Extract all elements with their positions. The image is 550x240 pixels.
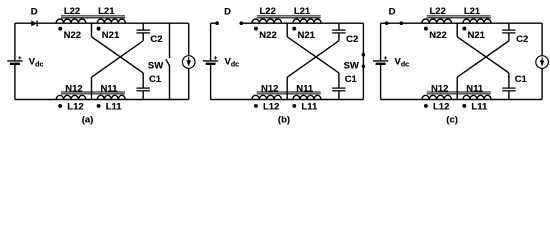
- svg-text:L22: L22: [64, 6, 80, 17]
- svg-text:L22: L22: [260, 6, 276, 17]
- capacitor C2: [502, 29, 515, 31]
- svg-text:Vdc: Vdc: [395, 57, 410, 69]
- svg-text:Vdc: Vdc: [225, 57, 240, 69]
- inductor L21 winding: [463, 19, 491, 23]
- svg-text:L11: L11: [301, 101, 318, 112]
- polarity dot L12: [424, 104, 428, 108]
- wire C2 top lead: [142, 23, 144, 30]
- inductor N12/L12 winding: [422, 95, 452, 99]
- switch SW closed wire: [362, 23, 364, 99]
- wire top rail: [381, 22, 542, 24]
- wire bottom rail: [211, 99, 364, 101]
- svg-text:N21: N21: [102, 30, 120, 41]
- node diode terminal right: [240, 21, 244, 25]
- wire diagonal C2 to bottom-junction: [92, 41, 144, 77]
- svg-text:L21: L21: [98, 6, 115, 17]
- wire top rail left segment: [211, 22, 218, 24]
- svg-text:N12: N12: [431, 83, 448, 94]
- svg-text:D: D: [224, 7, 231, 18]
- svg-text:SW: SW: [344, 60, 359, 71]
- svg-text:(a): (a): [82, 114, 94, 125]
- polarity dot N21: [292, 27, 296, 31]
- current source circle: [536, 56, 549, 69]
- wire right edge lower: [188, 68, 190, 99]
- wire diagonal C2 to bottom-junction: [287, 41, 339, 77]
- wire top rail right segment: [241, 22, 363, 24]
- svg-text:L22: L22: [430, 6, 446, 17]
- wire C1 top lead: [508, 73, 510, 88]
- polarity dot N22: [424, 27, 428, 31]
- wire right edge upper: [188, 23, 190, 56]
- wire left edge lower: [380, 64, 382, 100]
- core bars bottom: [61, 91, 125, 93]
- wire stub to bottom winding junction: [286, 77, 288, 99]
- wire C2 bottom lead: [508, 33, 510, 41]
- svg-text:N11: N11: [466, 83, 484, 94]
- svg-text:C2: C2: [516, 34, 528, 45]
- wire left edge upper: [380, 23, 382, 61]
- wire C1 bottom lead: [338, 91, 340, 100]
- svg-text:D: D: [389, 7, 396, 18]
- polarity dot N21: [97, 27, 101, 31]
- wire stub to bottom winding junction: [456, 77, 458, 99]
- wire left edge lower: [210, 64, 212, 100]
- wire stub to bottom winding junction: [91, 77, 93, 99]
- svg-text:L12: L12: [67, 101, 83, 112]
- wire left edge lower: [14, 64, 16, 100]
- wire left edge upper: [14, 23, 16, 61]
- wire diagonal C2 to bottom-junction: [457, 41, 509, 77]
- polarity dot N22: [254, 27, 258, 31]
- inductor N11/L11 winding: [97, 95, 125, 99]
- wire bottom rail: [381, 99, 542, 101]
- svg-text:N11: N11: [101, 83, 119, 94]
- current source arrow: [188, 57, 190, 62]
- svg-text:N12: N12: [261, 83, 278, 94]
- capacitor C1: [137, 87, 150, 89]
- svg-text:N22: N22: [64, 30, 81, 41]
- battery plus sign: [18, 57, 21, 59]
- wire diagonal top-junction to C1: [92, 37, 144, 73]
- wire top rail: [15, 22, 189, 24]
- svg-text:Vdc: Vdc: [29, 57, 44, 69]
- wire stub from top winding junction: [91, 23, 93, 37]
- svg-text:SW: SW: [148, 60, 163, 71]
- node diode terminal right: [400, 21, 404, 25]
- svg-text:L11: L11: [106, 101, 123, 112]
- wire stub from top winding junction: [286, 23, 288, 37]
- inductor N12/L12 winding: [252, 95, 282, 99]
- wire left edge upper: [210, 23, 212, 61]
- svg-text:C1: C1: [345, 74, 358, 85]
- polarity dot L11: [292, 104, 296, 108]
- svg-text:D: D: [31, 7, 38, 18]
- battery plus sign: [384, 57, 387, 59]
- battery Vdc plates: [373, 60, 388, 62]
- svg-text:N22: N22: [259, 30, 276, 41]
- diode D: [31, 20, 37, 26]
- core bars top: [257, 15, 321, 17]
- inductor L22 winding: [252, 19, 282, 23]
- capacitor C2: [137, 29, 150, 31]
- core bars bottom: [257, 91, 321, 93]
- inductor N12/L12 winding: [56, 95, 86, 99]
- svg-text:(b): (b): [278, 114, 290, 125]
- wire C1 bottom lead: [142, 91, 144, 100]
- battery Vdc plates: [7, 60, 22, 62]
- svg-text:C1: C1: [149, 74, 162, 85]
- wire bottom rail: [15, 99, 189, 101]
- wire C2 bottom lead: [338, 33, 340, 41]
- wire stub from top winding junction: [456, 23, 458, 37]
- svg-text:C2: C2: [346, 34, 358, 45]
- polarity dot L12: [254, 104, 258, 108]
- wire C2 top lead: [508, 23, 510, 30]
- wire diagonal top-junction to C1: [287, 37, 339, 73]
- inductor L21 winding: [293, 19, 321, 23]
- svg-text:N22: N22: [429, 30, 446, 41]
- polarity dot N22: [58, 27, 62, 31]
- wire C2 top lead: [338, 23, 340, 30]
- svg-text:L21: L21: [294, 6, 311, 17]
- svg-text:C1: C1: [515, 74, 528, 85]
- polarity dot N21: [462, 27, 466, 31]
- wire diagonal top-junction to C1: [457, 37, 509, 73]
- inductor N11/L11 winding: [463, 95, 491, 99]
- svg-text:L21: L21: [464, 6, 481, 17]
- wire right edge lower: [541, 68, 543, 99]
- svg-text:N11: N11: [296, 83, 314, 94]
- core bars bottom: [427, 91, 491, 93]
- battery Vdc plates: [203, 60, 218, 62]
- switch SW terminal dot bottom: [362, 65, 366, 69]
- svg-text:C2: C2: [150, 34, 162, 45]
- inductor L22 winding: [56, 19, 86, 23]
- battery plus sign: [214, 57, 217, 59]
- svg-text:N21: N21: [298, 30, 316, 41]
- svg-text:L12: L12: [263, 101, 279, 112]
- switch SW open blade: [169, 23, 171, 58]
- wire right edge upper: [541, 23, 543, 56]
- switch SW terminal dot top: [362, 53, 366, 57]
- capacitor C1: [502, 87, 515, 89]
- wire C1 top lead: [338, 73, 340, 88]
- polarity dot L12: [58, 104, 62, 108]
- current source arrow: [541, 57, 543, 62]
- svg-text:N21: N21: [468, 30, 486, 41]
- svg-text:L11: L11: [471, 101, 488, 112]
- core bars top: [61, 15, 125, 17]
- polarity dot L11: [462, 104, 466, 108]
- inductor L22 winding: [422, 19, 452, 23]
- polarity dot L11: [97, 104, 101, 108]
- wire C2 bottom lead: [142, 33, 144, 41]
- inductor N11/L11 winding: [293, 95, 321, 99]
- wire C1 bottom lead: [508, 91, 510, 100]
- svg-text:L12: L12: [433, 101, 449, 112]
- capacitor C2: [332, 29, 345, 31]
- svg-text:(c): (c): [446, 114, 458, 125]
- current source circle: [182, 56, 195, 69]
- inductor L21 winding: [97, 19, 125, 23]
- svg-text:N12: N12: [65, 83, 82, 94]
- node diode terminal left: [385, 21, 389, 25]
- wire C1 top lead: [142, 73, 144, 88]
- core bars top: [427, 15, 491, 17]
- node diode terminal left: [215, 21, 219, 25]
- capacitor C1: [332, 87, 345, 89]
